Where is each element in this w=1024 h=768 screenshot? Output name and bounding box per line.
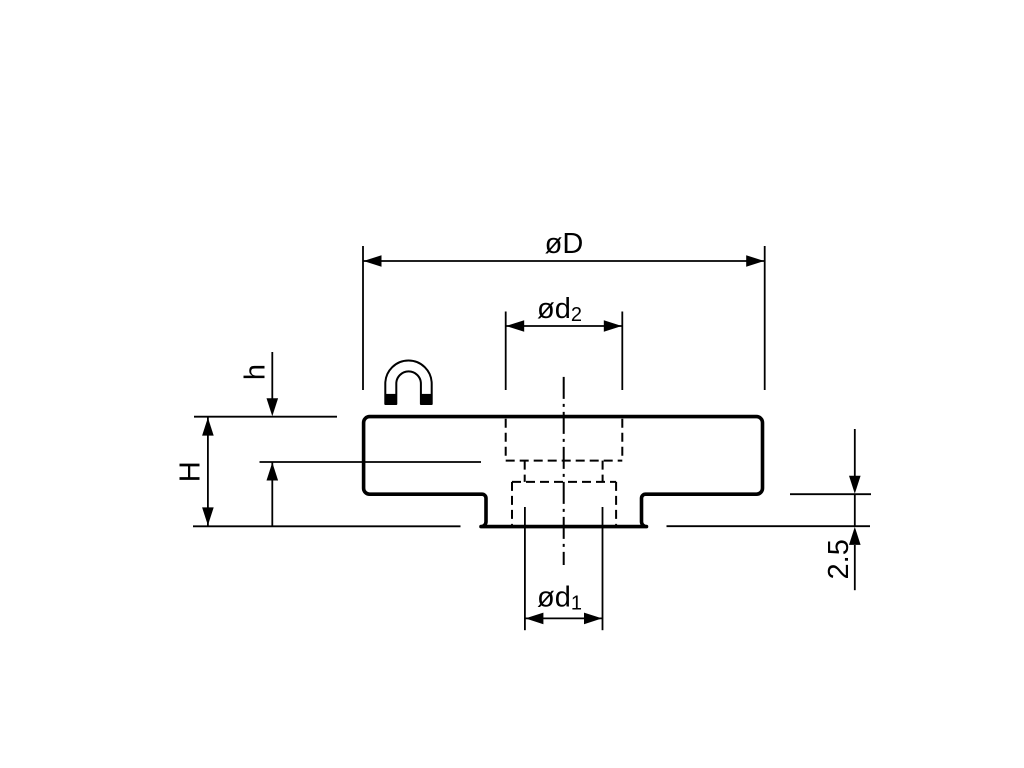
dimension 2.5 arrowhead down — [849, 476, 861, 494]
dimension od2 extension line right — [621, 312, 623, 391]
dimension 2.5 lower reference line — [667, 525, 871, 527]
vertical centerline — [563, 377, 565, 565]
dimension 2.5 upper reference line — [790, 493, 871, 495]
dimension od2 extension line left — [505, 312, 507, 391]
dimension H bottom reference line — [193, 525, 461, 527]
dimension oD extension line right — [764, 246, 766, 390]
dimension od2 line — [506, 325, 622, 327]
hidden thread left edge — [511, 482, 513, 525]
dimension h top reference line — [194, 416, 337, 418]
dimension od1 extension line left — [524, 507, 526, 630]
dimension H arrowhead up — [202, 418, 214, 436]
dimension h arrowhead down — [267, 398, 279, 416]
dimension 2.5 arrowhead up — [849, 527, 861, 545]
dimension oD arrowhead right — [746, 255, 764, 267]
dimension 2.5 upper leader line — [854, 429, 856, 476]
dimension od1 line — [525, 617, 602, 619]
dimension od1 arrowhead right — [584, 613, 602, 625]
dimension 2.5 middle segment — [854, 494, 856, 526]
svg-text:h: h — [240, 364, 272, 380]
magnet symbol (horseshoe) — [385, 361, 432, 405]
dimension od1 arrowhead left — [525, 613, 543, 625]
dimension oD line — [363, 260, 765, 262]
svg-text:H: H — [175, 461, 207, 482]
hidden counterbore left edge (od2) — [505, 419, 507, 461]
dimension oD arrowhead left — [364, 255, 382, 267]
hidden thread top — [512, 481, 616, 483]
hidden thread right edge — [615, 482, 617, 525]
dimension h lower leader line — [271, 462, 273, 526]
dimension h bottom reference line (magnet face level) — [260, 461, 482, 463]
svg-text:øD: øD — [545, 228, 584, 260]
hidden hole right edge (od1) — [602, 461, 604, 482]
part body outline (cross-section profile of flange with central boss) — [364, 417, 763, 527]
hidden hole left edge (od1) — [524, 461, 526, 482]
dimension 2.5 lower leader line — [854, 545, 856, 590]
dimension od1 extension line right — [602, 507, 604, 630]
dimension od2 arrowhead left — [506, 320, 524, 332]
dimension H arrowhead down — [202, 507, 214, 525]
dimension oD extension line left — [362, 246, 364, 390]
hidden counterbore bottom — [506, 460, 623, 462]
hidden counterbore right edge (od2) — [621, 419, 623, 461]
dimension h upper leader line — [271, 352, 273, 399]
dimension od2 arrowhead right — [604, 320, 622, 332]
svg-text:2.5: 2.5 — [823, 539, 855, 579]
dimension h arrowhead up — [267, 463, 279, 481]
dimension H line — [207, 418, 209, 526]
